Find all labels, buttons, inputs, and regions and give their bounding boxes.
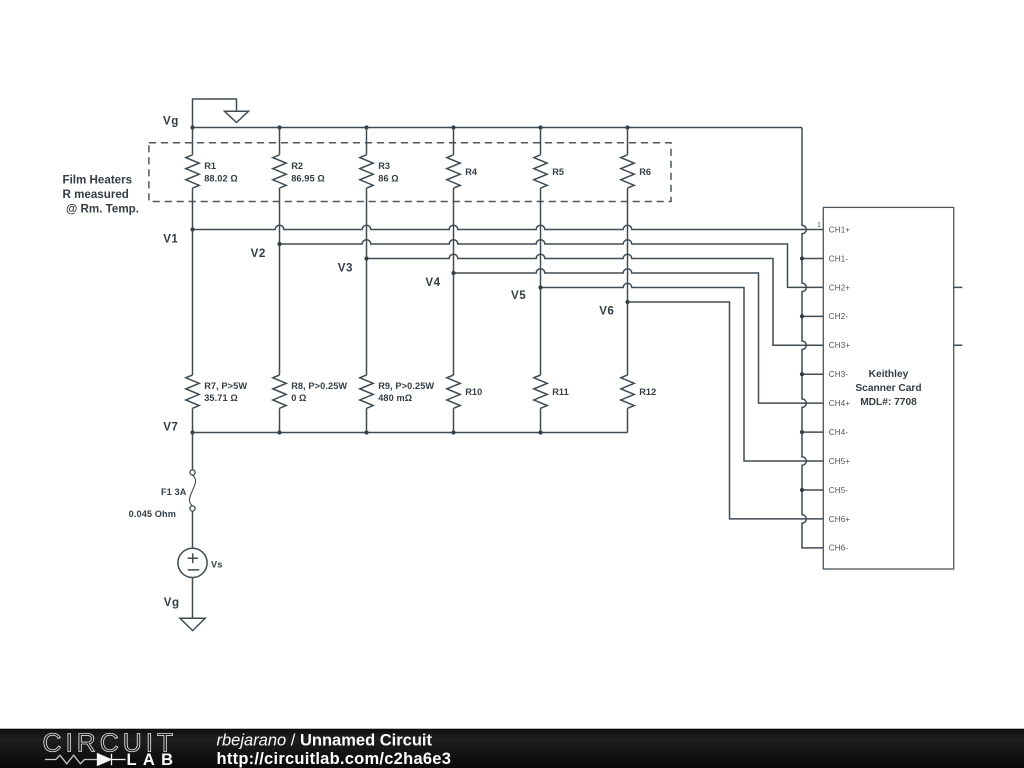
svg-text:V5: V5 [511, 289, 526, 302]
junction: Vg bus at R2 column [277, 125, 281, 129]
junction: Vg vertical at CH3- [800, 372, 804, 376]
svg-text:86 Ω: 86 Ω [378, 173, 399, 183]
junction: V7 bus at R8 column [277, 430, 281, 434]
junction: node V2 [277, 242, 281, 246]
svg-text:Film Heaters: Film Heaters [63, 174, 133, 187]
svg-text:http://circuitlab.com/c2ha6e3: http://circuitlab.com/c2ha6e3 [217, 750, 452, 768]
svg-text:rbejarano / Unnamed Circuit: rbejarano / Unnamed Circuit [217, 732, 433, 750]
junction: node V6 [625, 300, 629, 304]
resistor R3 [360, 128, 399, 259]
svg-text:480 mΩ: 480 mΩ [378, 393, 412, 403]
resistor R12 [621, 302, 657, 433]
svg-text:Vg: Vg [163, 115, 179, 128]
junction: Vg bus at R5 column [538, 125, 542, 129]
junction: node V5 [538, 285, 542, 289]
wire: Vg stub to CH4- [802, 431, 823, 433]
svg-text:R6: R6 [639, 167, 651, 177]
dashed enclosure: Film Heaters group [149, 143, 671, 202]
junction: V7 bus at R7 column [190, 430, 194, 434]
svg-text:CH2-: CH2- [829, 312, 849, 321]
svg-text:R8, P>0.25W: R8, P>0.25W [291, 381, 347, 391]
svg-text:CH6-: CH6- [829, 544, 849, 553]
wire: node V4 to CH4+ pin [454, 269, 824, 403]
junction: node V4 [451, 271, 455, 275]
svg-text:CH5+: CH5+ [829, 457, 851, 466]
junction: Vg bus at R1 column [190, 125, 194, 129]
resistor R4 [447, 128, 478, 274]
wire: node V3 to CH3+ pin [367, 254, 824, 345]
svg-text:@ Rm. Temp.: @ Rm. Temp. [66, 202, 139, 215]
svg-text:R9, P>0.25W: R9, P>0.25W [378, 381, 434, 391]
wire: Vs to bottom ground [192, 578, 194, 619]
svg-text:V1: V1 [163, 232, 178, 245]
svg-text:CH3-: CH3- [829, 370, 849, 379]
voltage source Vs [178, 548, 223, 577]
resistor R7 [186, 230, 248, 433]
svg-text:CH4-: CH4- [829, 428, 849, 437]
junction: Vg vertical at CH2- [800, 314, 804, 318]
svg-text:CH5-: CH5- [829, 486, 849, 495]
junction: node V1 [190, 227, 194, 231]
svg-text:Vs: Vs [211, 559, 222, 569]
resistor R5 [534, 128, 564, 288]
junction: Vg vertical at CH1- [800, 256, 804, 260]
wire: Vg top bus [193, 127, 803, 129]
svg-text:R3: R3 [378, 161, 390, 171]
svg-text:V3: V3 [338, 261, 353, 274]
svg-text:88.02 Ω: 88.02 Ω [204, 173, 238, 183]
svg-text:CH6+: CH6+ [829, 515, 851, 524]
wire: V7 bottom bus [193, 432, 628, 434]
svg-text:LAB: LAB [127, 751, 180, 768]
wire: node V5 to CH5+ pin [541, 283, 824, 461]
svg-text:R7, P>5W: R7, P>5W [204, 381, 247, 391]
junction: Vg bus at R3 column [364, 125, 368, 129]
wire: Vg stub to CH5- [802, 489, 823, 491]
svg-text:0.045 Ohm: 0.045 Ohm [129, 509, 176, 519]
svg-text:R5: R5 [552, 167, 564, 177]
svg-text:MDL#: 7708: MDL#: 7708 [860, 397, 917, 408]
svg-text:R measured: R measured [63, 188, 129, 201]
junction: V7 bus at R11 column [538, 430, 542, 434]
svg-text:R10: R10 [465, 387, 482, 397]
resistor R8 [273, 244, 348, 433]
svg-text:86.95 Ω: 86.95 Ω [291, 173, 325, 183]
resistor R9 [360, 259, 435, 433]
svg-text:R4: R4 [465, 167, 478, 177]
wire: Vg stub to CH2- [802, 315, 823, 317]
svg-text:35.71 Ω: 35.71 Ω [204, 393, 238, 403]
fuse F1 [129, 433, 196, 549]
svg-text:CH1-: CH1- [829, 254, 849, 263]
wire: node V1 to CH1+ pin [193, 225, 824, 229]
wire: node V2 to CH2+ pin [280, 240, 824, 288]
resistor R1 [186, 128, 238, 230]
junction: V7 bus at R9 column [364, 430, 368, 434]
wire: Vg stub to CH3- [802, 373, 823, 375]
CircuitLab logo: resistor+diode glyph [45, 754, 126, 766]
ground (bottom, Vg) [180, 618, 205, 630]
svg-text:R2: R2 [291, 161, 303, 171]
annotation: Film Heaters text [63, 174, 139, 216]
svg-text:V2: V2 [251, 247, 266, 260]
junction: node V3 [364, 256, 368, 260]
junction: Vg bus at R4 column [451, 125, 455, 129]
svg-text:Keithley: Keithley [869, 369, 909, 380]
svg-text:Scanner Card: Scanner Card [855, 383, 921, 394]
wire: node V6 to CH6+ pin [628, 302, 824, 519]
junction: V7 bus at R10 column [451, 430, 455, 434]
svg-text:CH2+: CH2+ [829, 283, 851, 292]
svg-text:R1: R1 [204, 161, 216, 171]
label: Keithley Scanner Card title [855, 369, 921, 408]
resistor R11 [534, 288, 569, 433]
IC U1: Keithley Scanner Card box [823, 207, 953, 569]
svg-text:Vg: Vg [164, 596, 180, 609]
wire: Vg stub to CH1- [802, 257, 823, 259]
wire: Vg bus riser to top ground [193, 99, 237, 128]
svg-text:R12: R12 [639, 387, 656, 397]
svg-text:F1 3A: F1 3A [161, 487, 187, 497]
resistor R2 [273, 128, 325, 245]
junction: Vg vertical at CH4- [800, 430, 804, 434]
pin stub right CH2+ [954, 286, 963, 288]
wire: Vg net vertical to CH- pins [802, 128, 823, 548]
resistor R10 [447, 273, 483, 433]
junction: Vg bus at R6 column [625, 125, 629, 129]
ground (top, Vg) [225, 111, 249, 122]
svg-text:V4: V4 [425, 276, 440, 289]
resistor R6 [621, 128, 651, 303]
svg-text:V6: V6 [599, 304, 614, 317]
footer bar [0, 729, 1024, 768]
svg-text:CH3+: CH3+ [829, 341, 851, 350]
pin stub right CH3+ [954, 344, 963, 346]
junction: Vg vertical at CH5- [800, 488, 804, 492]
svg-text:CH4+: CH4+ [829, 399, 851, 408]
svg-text:V7: V7 [163, 421, 178, 434]
svg-text:R11: R11 [552, 387, 569, 397]
svg-text:0 Ω: 0 Ω [291, 393, 306, 403]
svg-text:CH1+: CH1+ [829, 225, 851, 234]
svg-text:1: 1 [817, 220, 821, 229]
